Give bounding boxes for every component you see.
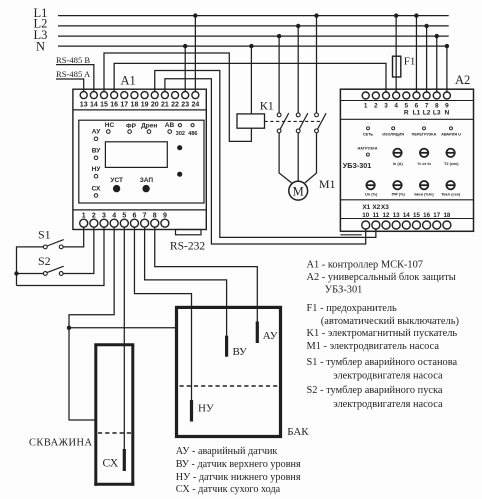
A1 top pin numbers 13-24 [80, 101, 200, 108]
svg-text:ПЕРЕГРУЗКА: ПЕРЕГРУЗКА [412, 132, 437, 136]
svg-text:M1 - электродвигатель насоса: M1 - электродвигатель насоса [307, 341, 440, 352]
wire A1 pin 24 to net L1 [193, 13, 197, 92]
svg-text:АУ: АУ [92, 129, 101, 136]
svg-text:N: N [36, 40, 45, 54]
svg-text:A2: A2 [455, 73, 470, 87]
wire S2 left to common rail [17, 273, 44, 275]
svg-text:УБЗ-301: УБЗ-301 [325, 284, 363, 295]
svg-text:8: 8 [153, 213, 157, 220]
motor M1 pump motor [289, 177, 336, 200]
A1 indicator 486 [188, 124, 197, 137]
fuse F1 [393, 13, 416, 91]
sensor NU electrode [192, 400, 214, 422]
svg-text:электродвигателя насоса: электродвигателя насоса [333, 371, 443, 382]
A2 label UBZ-301 [343, 161, 371, 170]
wire A1 pin 23 to net N [183, 44, 187, 92]
A2 LED OVERLOAD [412, 127, 437, 137]
svg-text:электродвигателя насоса: электродвигателя насоса [333, 399, 443, 410]
svg-text:УБЗ-301: УБЗ-301 [343, 161, 371, 170]
svg-text:Iмин (%In): Iмин (%In) [414, 192, 434, 197]
wire A2 pin 6 to net L1 [414, 13, 418, 91]
svg-text:20: 20 [151, 101, 159, 108]
svg-text:10: 10 [362, 212, 369, 219]
A2 top pin numbers 1-9 [364, 103, 449, 110]
A1 LCD display [105, 142, 167, 168]
svg-text:L3: L3 [433, 110, 441, 117]
svg-text:2: 2 [374, 103, 378, 110]
A1 right LED lower [177, 172, 182, 177]
svg-text:R: R [404, 110, 409, 117]
svg-text:2: 2 [92, 213, 96, 220]
svg-text:24: 24 [191, 101, 199, 108]
svg-text:Un (%): Un (%) [365, 192, 378, 197]
svg-text:НС: НС [105, 122, 115, 129]
svg-text:1: 1 [364, 103, 368, 110]
wire S1 left to common rail [17, 247, 44, 286]
svg-text:19: 19 [141, 101, 149, 108]
sensor AU electrode [257, 322, 277, 344]
K1 contact pole 1 [277, 113, 289, 133]
junction S1/S2 common [14, 271, 18, 275]
svg-text:1: 1 [82, 213, 86, 220]
svg-text:НУ - датчик нижнего уровня: НУ - датчик нижнего уровня [176, 472, 301, 483]
A1 indicator 302 [176, 124, 185, 137]
wire A1 pin 6 to sensor NU [134, 227, 191, 400]
svg-text:М: М [293, 184, 304, 198]
tank water level dashed [180, 385, 279, 387]
A1 button ZAP [140, 177, 154, 192]
svg-text:16: 16 [110, 101, 118, 108]
A1 bottom pin numbers 1-9 [82, 213, 167, 220]
svg-text:Х1: Х1 [362, 204, 370, 211]
svg-text:ВУ: ВУ [92, 148, 101, 155]
svg-text:6: 6 [132, 213, 136, 220]
svg-text:A1: A1 [121, 74, 136, 88]
A2 LED LOAD [358, 147, 378, 156]
A2 LED ALARM U [441, 127, 461, 137]
A1 indicator NU [92, 166, 102, 178]
svg-text:% от In: % от In [418, 161, 432, 166]
A2 bottom pin numbers 10-18 [362, 212, 451, 219]
wire A1 pin 15 to K1 coil [104, 53, 251, 141]
wire A2 pin 9 to net N [445, 44, 449, 92]
svg-text:СХ: СХ [103, 458, 119, 470]
svg-text:13: 13 [80, 101, 88, 108]
svg-text:L2: L2 [423, 110, 431, 117]
wire S1 to A1 pin 1 [63, 227, 84, 247]
svg-text:RS-232: RS-232 [170, 240, 205, 252]
A2 pot Un [365, 181, 378, 197]
net L3 phase line [34, 28, 449, 42]
A1 indicator FR [126, 123, 137, 133]
svg-text:F1 - предохранитель: F1 - предохранитель [307, 303, 398, 314]
svg-text:Дрен: Дрен [141, 123, 157, 130]
wire K1 pole 2 to net L2 [296, 24, 300, 113]
wire K1 pole 2 to motor M1 [297, 133, 299, 181]
svg-text:М1: М1 [319, 177, 336, 191]
A2 bottom terminal circles pins 10-18 [362, 221, 451, 229]
svg-text:RS-485 B: RS-485 B [56, 55, 90, 65]
svg-text:9: 9 [163, 213, 167, 220]
wire K1 pole 3 to motor M1 [305, 133, 317, 183]
svg-text:17: 17 [433, 212, 440, 219]
svg-text:13: 13 [393, 212, 400, 219]
controller A1 MCK-107 outline [73, 74, 206, 230]
A2 pot %otIn [418, 149, 432, 166]
wire S2 to A1 pin 2 [63, 227, 94, 274]
wire K1 pole 1 to net L3 [277, 34, 281, 113]
A2 pot Imin [414, 181, 434, 197]
switch S2 emergency start toggle [38, 254, 64, 276]
svg-text:НУ: НУ [92, 166, 102, 173]
K1 contact pole 3 [315, 113, 327, 133]
svg-text:ИЗОЛЯЦИЯ: ИЗОЛЯЦИЯ [382, 132, 404, 136]
svg-text:8: 8 [435, 103, 439, 110]
A1 indicator NS [105, 122, 115, 133]
svg-text:ВУ - датчик верхнего уровня: ВУ - датчик верхнего уровня [176, 459, 301, 470]
svg-text:A1 - контроллер МСК-107: A1 - контроллер МСК-107 [307, 260, 423, 271]
A2 pin labels R L1 L2 L3 N [404, 110, 450, 117]
A1 indicator AV [165, 122, 175, 133]
svg-text:5: 5 [405, 103, 409, 110]
svg-text:486: 486 [188, 131, 197, 137]
wire A1 pin 16 to A2 pin 3 [114, 63, 386, 92]
svg-text:СХ - датчик сухого хода: СХ - датчик сухого хода [176, 484, 281, 495]
svg-text:In (A): In (A) [393, 161, 404, 166]
well SKVAZHINA outline [29, 345, 134, 486]
wire K1 pole 1 to motor M1 [279, 133, 292, 183]
svg-text:18: 18 [443, 212, 450, 219]
junction common electrode node [67, 326, 71, 330]
A2 pot T2 [444, 149, 459, 166]
A1 button UST [110, 177, 123, 192]
tank BAK outline [177, 307, 310, 438]
svg-text:7: 7 [143, 213, 147, 220]
svg-text:K1 - электромагнитный пускател: K1 - электромагнитный пускатель [307, 328, 458, 339]
protection block A2 UBZ-301 outline [340, 73, 473, 235]
svg-text:УСТ: УСТ [110, 177, 123, 184]
svg-text:16: 16 [423, 212, 430, 219]
svg-text:4: 4 [112, 213, 116, 220]
svg-text:14: 14 [403, 212, 410, 219]
svg-text:3: 3 [384, 103, 388, 110]
svg-text:Х2: Х2 [372, 204, 380, 211]
svg-text:АУ - аварийный датчик: АУ - аварийный датчик [176, 446, 278, 457]
svg-text:14: 14 [90, 101, 98, 108]
switch S1 emergency stop toggle [38, 227, 64, 249]
svg-text:АУ: АУ [263, 330, 278, 342]
wire K1 coil to net N [249, 44, 253, 114]
K1 contact pole 2 [296, 113, 307, 133]
wire common rail to A1 pin 3 [17, 227, 105, 286]
A1 bottom terminal circles pins 1-9 [80, 219, 169, 227]
svg-text:НУ: НУ [198, 403, 214, 415]
wire A1 pin 4 to tank and well common [69, 227, 114, 420]
svg-text:21: 21 [161, 101, 169, 108]
svg-text:6: 6 [415, 103, 419, 110]
A1 indicator AU [92, 129, 101, 141]
svg-text:11: 11 [373, 212, 380, 219]
A1 indicator SH [92, 185, 101, 197]
A2 LED ISOLATION [382, 127, 404, 137]
svg-text:АВАРИЯ U: АВАРИЯ U [441, 132, 461, 136]
net RS-485 A wire to A1 pin 13 [56, 69, 91, 92]
svg-text:A2 - универсальный блок защиты: A2 - универсальный блок защиты [307, 272, 456, 283]
sensor SH electrode [103, 449, 125, 471]
svg-text:15: 15 [413, 212, 420, 219]
net N neutral line [36, 40, 449, 54]
wire A1 pin 7 to sensor VU [145, 227, 227, 336]
svg-text:ЗАП: ЗАП [140, 177, 154, 184]
svg-text:НАГРУЗКА: НАГРУЗКА [358, 147, 378, 151]
svg-text:S1: S1 [38, 227, 51, 241]
svg-text:АВ: АВ [165, 122, 175, 129]
svg-text:ПФ (%): ПФ (%) [392, 192, 406, 197]
svg-text:К1: К1 [260, 99, 274, 113]
svg-text:СКВАЖИНА: СКВАЖИНА [29, 438, 92, 449]
svg-text:N: N [445, 110, 450, 117]
A2 top terminal circles pins 1-9 [362, 92, 450, 99]
svg-text:15: 15 [100, 101, 108, 108]
svg-text:5: 5 [122, 213, 126, 220]
svg-text:12: 12 [383, 212, 390, 219]
wire A1 pin 5 to sensor SH [123, 227, 125, 449]
svg-text:RS-485 A: RS-485 A [56, 69, 91, 79]
svg-text:17: 17 [120, 101, 128, 108]
svg-text:7: 7 [425, 103, 429, 110]
wire A1 pin 8 to sensor AU [155, 227, 258, 322]
svg-text:302: 302 [176, 131, 185, 137]
A2 labels X1 X2 X3 [362, 204, 389, 211]
net L1 phase line [34, 6, 449, 20]
A1 indicator VU [92, 148, 101, 160]
svg-text:F1: F1 [404, 56, 416, 68]
svg-text:S2 - тумблер аварийного пуска: S2 - тумблер аварийного пуска [307, 385, 443, 396]
net RS-485 B wire to A1 pin 14 [56, 55, 94, 92]
wire common node to tank wall [69, 327, 177, 329]
well water level dashed [98, 432, 131, 434]
A1 top terminal circles pins 13-24 [80, 92, 199, 99]
svg-text:Х3: Х3 [381, 204, 389, 211]
A1 indicator Dren [141, 123, 157, 134]
svg-text:3: 3 [102, 213, 106, 220]
svg-text:(автоматический выключатель): (автоматический выключатель) [321, 316, 459, 327]
wire A1 pin 20 to A2 pin 11 [155, 71, 376, 238]
svg-text:Т2 (сек): Т2 (сек) [444, 161, 459, 166]
svg-text:БАК: БАК [287, 426, 309, 438]
svg-text:Твкл (сек): Твкл (сек) [441, 192, 461, 197]
svg-text:9: 9 [445, 103, 449, 110]
svg-text:18: 18 [131, 101, 139, 108]
svg-text:22: 22 [171, 101, 179, 108]
svg-text:23: 23 [181, 101, 189, 108]
svg-text:4: 4 [394, 103, 398, 110]
svg-text:СХ: СХ [92, 185, 101, 192]
legend component list [307, 260, 459, 410]
svg-text:ФР: ФР [126, 123, 137, 130]
svg-text:L1: L1 [413, 110, 421, 117]
svg-text:ВУ: ВУ [233, 346, 247, 358]
net L2 phase line [34, 17, 449, 31]
wire A1 pin 21 to A2 pin 10 [165, 79, 366, 244]
sensor VU electrode [227, 336, 247, 358]
svg-text:S1 - тумблер аварийного остано: S1 - тумблер аварийного останова [307, 357, 458, 368]
A2 pot Tvkl [441, 181, 461, 197]
A1 right LED upper [177, 145, 182, 150]
svg-text:S2: S2 [38, 254, 51, 268]
svg-text:СЕТЬ: СЕТЬ [363, 132, 374, 136]
wire A2 pin 8 to net L3 [435, 34, 439, 92]
legend sensor list [176, 446, 301, 495]
A2 pot PF [392, 181, 406, 197]
K1 linkage dashed line [265, 120, 323, 122]
A2 LED SET [363, 127, 374, 137]
wire K1 pole 3 to net L1 [314, 13, 318, 113]
A2 pot In(A) [393, 149, 404, 166]
A1 RS-232 connector tab [170, 230, 205, 253]
contactor K1 coil [237, 99, 274, 129]
wire A2 pin 7 to net L2 [424, 24, 428, 92]
